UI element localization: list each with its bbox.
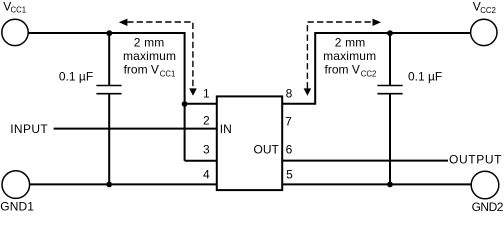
- svg-text:OUTPUT: OUTPUT: [449, 152, 502, 166]
- svg-text:7: 7: [285, 114, 292, 128]
- svg-text:2 mm: 2 mm: [335, 35, 366, 49]
- svg-text:maximum: maximum: [123, 49, 176, 63]
- svg-text:CC2: CC2: [480, 6, 496, 15]
- svg-text:6: 6: [286, 142, 293, 156]
- svg-text:1: 1: [203, 87, 210, 101]
- svg-text:2: 2: [203, 113, 210, 127]
- svg-text:GND2: GND2: [472, 200, 504, 214]
- svg-text:INPUT: INPUT: [10, 122, 48, 136]
- svg-text:IN: IN: [220, 122, 232, 136]
- svg-text:0.1 µF: 0.1 µF: [59, 70, 93, 84]
- svg-text:CC1: CC1: [160, 70, 176, 79]
- svg-text:CC1: CC1: [11, 6, 27, 15]
- svg-text:from V: from V: [124, 62, 159, 76]
- svg-text:0.1 µF: 0.1 µF: [408, 70, 442, 84]
- svg-text:4: 4: [203, 167, 210, 181]
- svg-text:CC2: CC2: [361, 70, 377, 79]
- svg-text:5: 5: [286, 168, 293, 182]
- svg-text:maximum: maximum: [323, 49, 376, 63]
- svg-text:from V: from V: [325, 62, 360, 76]
- svg-text:3: 3: [203, 143, 210, 157]
- svg-text:GND1: GND1: [0, 200, 34, 214]
- svg-text:OUT: OUT: [254, 142, 280, 156]
- svg-text:8: 8: [286, 87, 293, 101]
- svg-text:2 mm: 2 mm: [134, 35, 165, 49]
